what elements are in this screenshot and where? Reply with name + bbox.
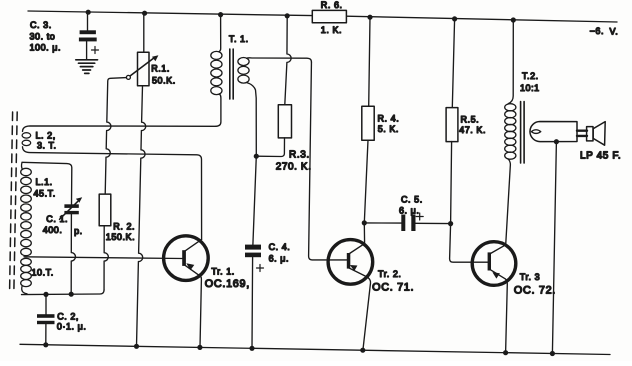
wire earpiece return to ground rail — [552, 142, 556, 354]
coil L2 loop 1 — [22, 133, 31, 138]
node junction dot R3-rail — [285, 13, 290, 18]
svg-text:R. 4.: R. 4. — [378, 114, 400, 124]
transistor Tr1 emitter arrow — [186, 263, 194, 270]
resistor R1 top lead — [143, 13, 145, 52]
node junction dot C2-L1 — [43, 292, 48, 297]
transformer T2 bottom lead to Tr3 collector — [506, 159, 511, 245]
svg-text:0·1. μ.: 0·1. μ. — [57, 322, 87, 332]
capacitor C4 polarity plus — [257, 265, 264, 272]
transistor Tr3 collector lead — [491, 245, 506, 254]
svg-text:−6.: −6. — [590, 26, 604, 36]
node junction dot R4-rail — [367, 15, 372, 20]
capacitor C3 bottom plate — [79, 38, 97, 42]
node junction dot T1-rail — [218, 12, 223, 17]
node junction dot R4-C5 — [362, 220, 367, 225]
svg-text:L.1.: L.1. — [36, 177, 53, 187]
resistor R1 wiper terminal circle — [126, 75, 130, 79]
capacitor C2 bottom lead — [45, 324, 47, 345]
label C4 — [269, 242, 291, 264]
svg-text:270. K.: 270. K. — [276, 162, 312, 173]
svg-text:45.T.: 45.T. — [34, 189, 56, 199]
capacitor C4 top plate — [245, 245, 261, 250]
node junction dot Tr2-emitter-ground — [360, 348, 365, 353]
transformer T1 primary winding — [211, 51, 222, 94]
coil L2 bottom wire to Tr1 collector — [23, 147, 202, 240]
resistor R4 bottom lead to Tr2 collector — [364, 140, 368, 243]
node junction dot C3-rail — [86, 10, 91, 15]
node junction dot Tr1-emitter-ground — [197, 345, 202, 350]
node junction dot R3-T1sec — [254, 154, 259, 159]
resistor R1 bottom lead wire to ground rail with hops — [137, 86, 146, 347]
svg-text:R.1.: R.1. — [151, 64, 170, 74]
capacitor C1 bottom plate — [64, 211, 78, 214]
svg-text:C. 1.: C. 1. — [46, 214, 68, 224]
svg-text:OC.169,: OC.169, — [205, 278, 250, 290]
resistor R5 bottom lead to Tr3 base — [450, 142, 488, 263]
svg-text:10:1: 10:1 — [520, 83, 540, 93]
ground symbol earth C3 — [76, 60, 98, 74]
resistor R5 top lead — [452, 19, 454, 108]
resistor R3 body — [278, 105, 291, 138]
coil L1 winding 10T — [21, 258, 32, 294]
transformer T2 primary winding — [505, 104, 516, 159]
svg-text:C. 2,: C. 2, — [57, 311, 79, 321]
resistor R4 top lead — [369, 17, 370, 106]
label R6 — [321, 0, 343, 35]
svg-text:T. 1.: T. 1. — [229, 34, 249, 44]
resistor R5 body — [446, 108, 458, 142]
label T1 — [229, 34, 249, 44]
svg-text:3. T.: 3. T. — [37, 141, 57, 151]
transformer T1 primary top lead — [219, 15, 221, 52]
transformer T1 core — [230, 49, 233, 99]
label Tr2 — [378, 269, 401, 279]
wire R1 wiper to R2 with hops — [105, 78, 126, 195]
svg-text:47. K.: 47. K. — [459, 125, 486, 135]
aerial rod dashed line B — [14, 112, 17, 290]
resistor R1 variable arrow — [130, 58, 155, 77]
svg-text:150.K.: 150.K. — [106, 232, 135, 242]
svg-text:LP 45 F.: LP 45 F. — [580, 151, 621, 162]
capacitor C1 bottom lead with hop — [71, 214, 75, 294]
svg-text:30. to: 30. to — [30, 32, 56, 42]
earpiece capsule body — [530, 122, 577, 142]
capacitor C5 polarity plus — [416, 213, 423, 220]
label R4 — [378, 114, 400, 135]
svg-text:C. 3.: C. 3. — [30, 20, 52, 30]
capacitor C3 top plate — [80, 30, 96, 34]
svg-text:R. 6.: R. 6. — [321, 0, 343, 10]
transistor Tr3 circle — [472, 242, 516, 286]
svg-text:R.3.: R.3. — [289, 150, 310, 161]
svg-text:10.T.: 10.T. — [32, 268, 54, 278]
node junction dot R1line-ground — [134, 344, 139, 349]
svg-text:R. 2.: R. 2. — [113, 222, 135, 232]
speaker horn cone — [593, 122, 605, 146]
wire top supply rail right segment — [346, 16, 617, 22]
label supply voltage — [590, 26, 619, 37]
label L2 — [36, 131, 57, 151]
capacitor C2 bottom plate — [37, 321, 55, 324]
svg-text:Tr. 2.: Tr. 2. — [378, 269, 401, 279]
label R2 — [106, 222, 135, 242]
label L1 tap — [32, 268, 54, 278]
svg-text:OC. 72.: OC. 72. — [514, 285, 556, 297]
speaker fork prong top — [577, 129, 587, 131]
label C5 — [399, 195, 423, 216]
resistor R3 bottom lead — [256, 138, 284, 157]
node junction dot R1-rail — [142, 11, 147, 16]
transformer T2 core — [521, 102, 525, 164]
wire top supply rail left segment — [28, 11, 312, 16]
label T2 — [520, 71, 540, 93]
label R3 — [276, 150, 312, 173]
speaker driver box — [587, 127, 593, 141]
wire bottom ground rail — [20, 344, 610, 354]
coil L2 loop 2 — [22, 140, 31, 145]
svg-text:5. K.: 5. K. — [378, 124, 399, 134]
label speaker — [580, 151, 621, 162]
capacitor C5 left wire — [364, 222, 401, 224]
capacitor C3 bottom lead — [86, 41, 88, 59]
node junction dot C1-L1 — [69, 292, 74, 297]
node junction dot R5-rail — [452, 16, 457, 21]
transistor Tr2 base bar — [347, 253, 351, 269]
node junction dot C5-R5 — [448, 221, 453, 226]
capacitor C4 bottom lead — [251, 257, 254, 348]
transistor Tr3 emitter lead — [491, 270, 508, 353]
transformer T2 top lead — [509, 20, 514, 104]
resistor R4 body — [362, 106, 374, 140]
svg-text:6. μ.: 6. μ. — [399, 206, 419, 216]
capacitor C1 top plate — [64, 204, 78, 208]
label Tr1 — [211, 266, 234, 276]
resistor R3 top lead with hop — [285, 16, 291, 105]
capacitor C5 left plate — [401, 215, 405, 232]
capacitor C1 variable arrow — [60, 202, 78, 220]
label C3 value — [30, 20, 62, 53]
resistor R2 body — [99, 194, 111, 226]
transformer T1 primary bottom lead — [216, 94, 221, 126]
svg-text:400.: 400. — [43, 225, 63, 235]
transistor Tr3 base bar — [488, 252, 491, 270]
label L1 — [34, 177, 56, 199]
label C2 — [57, 311, 87, 331]
speaker fork prong bottom — [577, 135, 587, 137]
transistor Tr2 emitter lead — [349, 268, 371, 350]
capacitor C4 bottom plate — [245, 253, 261, 258]
svg-text:Tr. 3: Tr. 3 — [520, 272, 540, 282]
transistor Tr1 emitter lead — [185, 265, 202, 348]
svg-text:L. 2,: L. 2, — [36, 131, 56, 141]
transformer T1 secondary top lead to Tr2 base line — [247, 58, 312, 62]
label R5 — [459, 115, 486, 136]
capacitor C3 polarity plus — [92, 47, 99, 54]
node junction dot earpiece bottom — [554, 139, 559, 144]
transformer T1 secondary bottom lead — [247, 83, 257, 157]
svg-text:6. μ.: 6. μ. — [269, 254, 289, 264]
resistor R6 body in rail — [312, 10, 346, 22]
node junction dot Tr3-emitter-ground — [503, 350, 508, 355]
node junction dot C4-ground — [249, 346, 254, 351]
resistor R1 body — [138, 52, 150, 85]
label R1 — [151, 64, 176, 86]
transistor Tr1 base bar — [182, 250, 186, 266]
transistor Tr1 collector lead — [185, 239, 202, 251]
svg-text:1. K.: 1. K. — [321, 25, 342, 35]
wire L1 bottom — [22, 290, 105, 295]
svg-text:p.: p. — [74, 226, 83, 236]
svg-text:C. 4.: C. 4. — [269, 242, 291, 252]
transistor Tr1 circle — [164, 236, 209, 281]
transistor Tr2 collector lead — [349, 244, 365, 254]
wire Tr2 base line vertical — [309, 62, 347, 260]
resistor R2 bottom lead with hop — [104, 226, 108, 290]
svg-text:OC. 71.: OC. 71. — [372, 282, 414, 294]
svg-text:50.K.: 50.K. — [152, 76, 176, 86]
capacitor C5 right plate — [411, 215, 415, 232]
transistor Tr3 emitter arrow — [492, 272, 500, 278]
svg-text:T.2.: T.2. — [522, 71, 539, 81]
capacitor C5 right wire — [416, 222, 451, 224]
wire L1 tap to Tr1 base — [24, 257, 182, 259]
svg-text:100. μ.: 100. μ. — [30, 43, 62, 53]
svg-text:V.: V. — [610, 27, 619, 37]
coil L2 top wire to T1 primary — [23, 126, 217, 132]
coil L1 winding 45T — [21, 163, 32, 256]
transistor Tr2 circle — [328, 240, 373, 285]
svg-text:R.5.: R.5. — [461, 115, 480, 125]
capacitor C2 top lead — [45, 294, 47, 314]
label C1 — [43, 214, 83, 236]
capacitor C2 top plate — [37, 314, 55, 318]
aerial rod dashed line A — [10, 112, 13, 290]
transformer T1 secondary winding — [238, 58, 249, 84]
capacitor C3 top lead — [87, 12, 89, 30]
node junction dot earpiece-ground — [550, 351, 555, 356]
node junction dot T2-rail — [511, 17, 516, 22]
wire T1 secondary bottom to C4 — [253, 156, 256, 244]
svg-text:C. 5.: C. 5. — [401, 195, 423, 205]
label Tr3 — [520, 272, 540, 282]
node junction dot C2-ground — [43, 342, 48, 347]
svg-text:Tr. 1.: Tr. 1. — [211, 266, 234, 276]
earpiece coil loop — [531, 130, 541, 134]
transistor Tr2 emitter arrow — [350, 265, 358, 271]
coil L1 top wire to C1 — [22, 162, 72, 204]
